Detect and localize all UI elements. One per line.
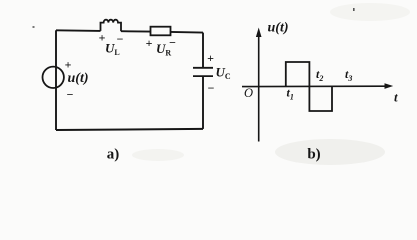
svg-text:UC: UC xyxy=(216,65,231,82)
svg-text:t2: t2 xyxy=(316,67,323,83)
scan speck top right xyxy=(353,8,355,11)
waveform square pulse xyxy=(286,62,332,111)
svg-text:+: + xyxy=(146,36,153,50)
svg-text:b): b) xyxy=(307,147,320,163)
svg-text:u(t): u(t) xyxy=(68,71,89,86)
svg-text:−: − xyxy=(169,36,176,50)
svg-text:+: + xyxy=(65,58,72,72)
svg-text:O: O xyxy=(244,86,253,100)
svg-text:−: − xyxy=(117,32,124,46)
svg-text:t1: t1 xyxy=(287,86,294,102)
svg-text:−: − xyxy=(67,88,74,102)
graph vertical axis xyxy=(258,34,260,142)
voltage source u(t) circle xyxy=(43,67,64,88)
graph horizontal axis xyxy=(242,85,386,87)
right wire upper xyxy=(202,33,204,68)
scan speck left xyxy=(33,26,35,28)
svg-text:+: + xyxy=(207,51,214,65)
scan background tint patches xyxy=(132,3,410,165)
horizontal axis arrowhead xyxy=(385,83,394,89)
resistor R xyxy=(151,27,171,36)
wire between inductor and resistor xyxy=(121,30,151,32)
bottom wire xyxy=(56,129,203,130)
svg-text:−: − xyxy=(208,81,215,95)
svg-text:t: t xyxy=(394,90,398,105)
left wire xyxy=(55,30,57,130)
svg-text:a): a) xyxy=(107,147,120,163)
vertical axis arrowhead xyxy=(256,28,262,38)
right wire lower xyxy=(202,76,204,129)
capacitor C bottom plate xyxy=(193,75,213,77)
svg-text:u(t): u(t) xyxy=(268,21,289,36)
svg-text:t3: t3 xyxy=(345,67,352,83)
wire top-left segment xyxy=(56,29,101,32)
capacitor C top plate xyxy=(193,67,213,69)
wire resistor to top-right corner xyxy=(171,31,204,34)
inductor L xyxy=(101,20,122,32)
